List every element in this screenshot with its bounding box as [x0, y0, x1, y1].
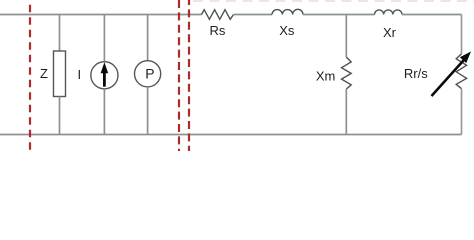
wire top segment left	[0, 14, 202, 16]
faint pink dashed top line	[193, 0, 474, 2]
resistor Rs	[202, 10, 234, 39]
svg-text:P: P	[145, 65, 154, 81]
reactance Xm	[316, 15, 351, 135]
measurement cursor red dashed line 1	[29, 5, 31, 151]
svg-text:Xs: Xs	[279, 23, 295, 38]
wire top segment Rs to Xs	[234, 14, 272, 16]
svg-text:I: I	[78, 67, 82, 82]
svg-text:Xm: Xm	[316, 68, 336, 83]
current source I	[78, 15, 119, 135]
inductor Xs	[272, 9, 303, 38]
wire top segment Xs to Xr	[303, 14, 375, 16]
measurement cursor red dashed line 2	[178, 0, 180, 151]
measurement cursor red dashed line 3	[188, 0, 190, 151]
power meter P	[135, 15, 161, 135]
svg-text:Rr/s: Rr/s	[404, 66, 428, 81]
wire bottom	[0, 134, 462, 136]
inductor Xr	[375, 10, 403, 40]
svg-text:Z: Z	[40, 66, 48, 81]
variable resistor Rr/s	[404, 15, 471, 135]
wire top segment right	[402, 14, 462, 16]
impedance Z	[40, 15, 66, 135]
svg-text:Xr: Xr	[383, 25, 397, 40]
svg-text:Rs: Rs	[210, 23, 226, 38]
